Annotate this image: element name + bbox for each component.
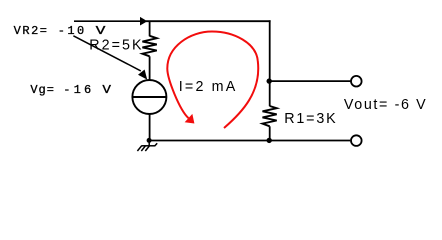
svg-text:R2=5K: R2=5K bbox=[89, 37, 142, 53]
ground bbox=[137, 141, 157, 152]
label VR2= -10 V bbox=[14, 24, 107, 38]
svg-text:R1=3K: R1=3K bbox=[284, 111, 336, 127]
junction output node bbox=[267, 78, 272, 83]
svg-text:V: V bbox=[102, 83, 112, 97]
junction ground node bbox=[147, 138, 152, 143]
wire right branch to R1 bbox=[269, 81, 271, 106]
wire output tap bbox=[270, 80, 352, 82]
terminal Vout upper bbox=[351, 76, 362, 87]
svg-text:I=2 mA: I=2 mA bbox=[179, 79, 236, 95]
wire R2 top stem bbox=[149, 21, 151, 36]
current source I1 bbox=[132, 80, 166, 114]
wire right branch upper bbox=[269, 20, 271, 81]
wire top node A bbox=[146, 20, 271, 22]
svg-text:VR2=: VR2= bbox=[14, 24, 47, 38]
resistor R1 bbox=[263, 106, 277, 126]
svg-text:-16: -16 bbox=[63, 83, 91, 97]
leader line from VR2 label to current source bbox=[73, 36, 140, 71]
junction R1 bottom node bbox=[267, 138, 272, 143]
resistor R2 bbox=[142, 36, 156, 57]
wire bottom bbox=[149, 140, 350, 142]
svg-text:Vg=: Vg= bbox=[30, 83, 54, 97]
current loop arrow bbox=[167, 32, 258, 129]
wire current source to ground node bbox=[149, 114, 151, 141]
terminal Vout lower bbox=[351, 135, 362, 146]
wire R2 bottom stem bbox=[149, 56, 151, 80]
svg-text:V: V bbox=[96, 24, 107, 38]
svg-text:Vout= -6 V: Vout= -6 V bbox=[344, 97, 426, 113]
leader line from VR2 label to top wire bbox=[74, 20, 140, 22]
wire R1 bottom stem bbox=[269, 126, 271, 140]
label Vg= -16 V bbox=[30, 83, 112, 97]
svg-text:-10: -10 bbox=[58, 24, 84, 38]
arrowhead at current source bbox=[138, 70, 147, 80]
arrowhead on top wire bbox=[140, 17, 147, 26]
